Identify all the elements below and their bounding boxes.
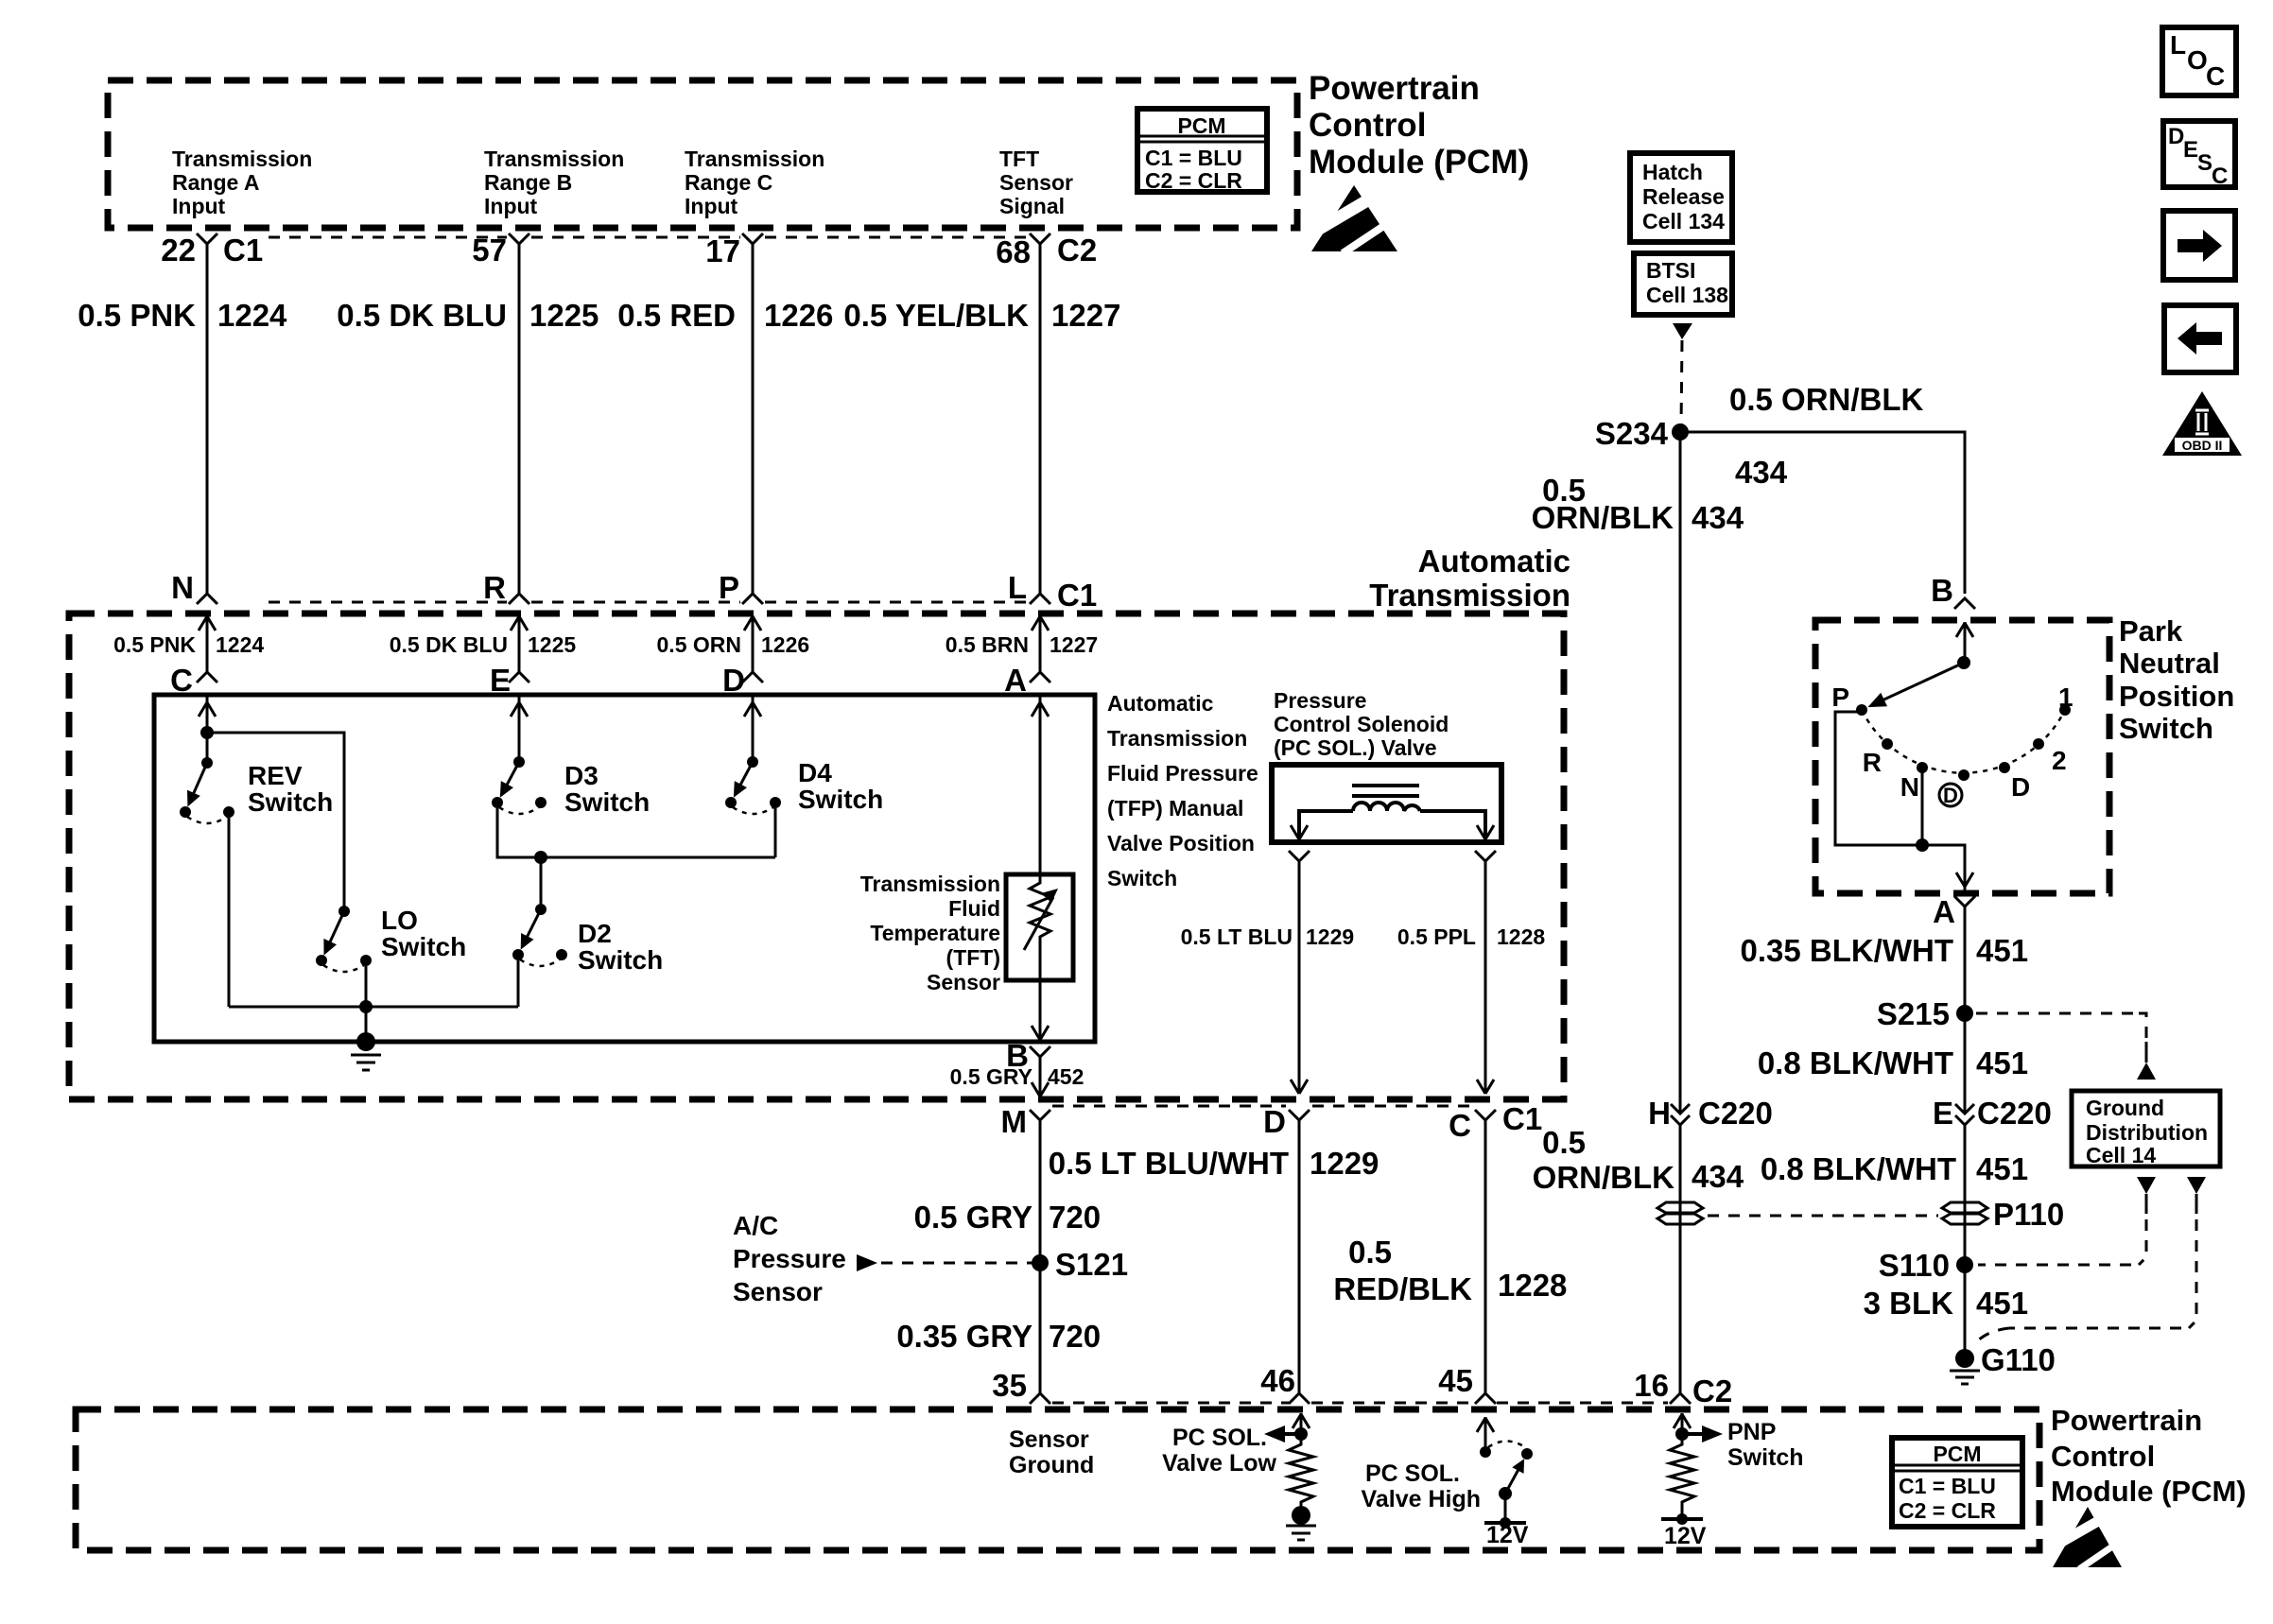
svg-text:Sensor: Sensor — [733, 1277, 823, 1306]
pin 22 C1 — [161, 233, 263, 268]
ESD symbol bottom — [2053, 1507, 2122, 1569]
svg-text:Switch: Switch — [564, 787, 650, 817]
svg-text:C1: C1 — [1502, 1101, 1542, 1136]
svg-text:0.5: 0.5 — [1542, 1125, 1586, 1160]
svg-text:(TFT): (TFT) — [946, 945, 1000, 970]
dashed from S215 to ground distribution — [1976, 1013, 2156, 1080]
svg-text:Switch: Switch — [2119, 712, 2213, 745]
svg-text:Position: Position — [2119, 680, 2234, 713]
label 0.5 DK BLU 1225 (inner) — [390, 632, 577, 657]
wire P contact to output — [1835, 712, 1965, 879]
TFP manual valve position switch box — [154, 695, 1095, 1042]
connector face dashed line C1/C2 (top) — [269, 236, 507, 239]
pin C C1 (solenoid high) — [1449, 1101, 1542, 1143]
pin R — [483, 570, 529, 605]
svg-text:Input: Input — [484, 194, 538, 218]
wire 46 into PCM with arrow — [1293, 1413, 1310, 1434]
svg-text:C1: C1 — [1057, 578, 1097, 613]
svg-text:Cell 14: Cell 14 — [2086, 1143, 2156, 1167]
node S215 — [1877, 996, 1973, 1031]
D3 switch — [492, 756, 547, 814]
svg-text:C2 = CLR: C2 = CLR — [1145, 168, 1242, 193]
wire into E with arrow — [511, 615, 528, 672]
svg-text:Neutral: Neutral — [2119, 647, 2220, 680]
pin A of TFP switch — [1004, 663, 1050, 698]
label 3 BLK 451 — [1864, 1286, 2028, 1321]
svg-text:D: D — [1263, 1104, 1286, 1139]
svg-text:C2 = CLR: C2 = CLR — [1899, 1498, 1996, 1523]
wire D4 right contact down to bus1 — [774, 808, 777, 857]
inline connector H C220 — [1648, 1096, 1773, 1131]
svg-text:S215: S215 — [1877, 996, 1950, 1031]
svg-text:451: 451 — [1976, 933, 2028, 968]
svg-text:451: 451 — [1976, 1151, 2028, 1186]
svg-text:Pressure: Pressure — [733, 1244, 846, 1273]
svg-text:C: C — [170, 663, 193, 698]
wire5 pin D down to pin 46 — [1298, 1120, 1301, 1393]
svg-text:ORN/BLK: ORN/BLK — [1532, 500, 1674, 535]
svg-text:C: C — [2212, 164, 2228, 189]
icon OBD II triangle — [2162, 391, 2242, 456]
svg-text:C1 = BLU: C1 = BLU — [1899, 1474, 1996, 1498]
ground (PC SOL valve low) — [1286, 1506, 1316, 1540]
wire7 S234 down to H C220 — [1679, 432, 1682, 1114]
svg-text:LO: LO — [381, 906, 418, 935]
svg-text:Transmission: Transmission — [860, 872, 1000, 896]
wire A inside box with arrow — [1032, 697, 1049, 874]
node junction on bus1 — [534, 851, 547, 864]
svg-text:A/C: A/C — [733, 1211, 778, 1240]
svg-text:Control: Control — [2051, 1440, 2155, 1473]
Automatic Transmission dashed box — [69, 613, 1564, 1099]
svg-text:B: B — [1931, 573, 1953, 608]
svg-text:C2: C2 — [1692, 1373, 1732, 1408]
pin D of TFP switch — [722, 663, 763, 698]
svg-text:Transmission: Transmission — [1107, 726, 1247, 751]
svg-text:Powertrain: Powertrain — [2051, 1404, 2202, 1437]
resistor (PNP switch pull) — [1670, 1434, 1694, 1516]
label D3 Switch — [564, 761, 650, 817]
wire junction down to D2 pivot — [540, 857, 543, 909]
svg-text:Temperature: Temperature — [870, 921, 1000, 945]
svg-text:D: D — [2011, 772, 2030, 802]
svg-text:1229: 1229 — [1306, 924, 1354, 949]
svg-text:0.8 BLK/WHT: 0.8 BLK/WHT — [1761, 1151, 1956, 1186]
svg-text:Switch: Switch — [798, 785, 883, 814]
wire into C with arrow — [199, 615, 216, 672]
svg-text:Switch: Switch — [1727, 1444, 1804, 1471]
svg-text:C220: C220 — [1698, 1096, 1773, 1131]
label 0.35 BLK/WHT 451 — [1740, 933, 2028, 968]
svg-text:PNP: PNP — [1727, 1419, 1776, 1445]
wire REV right contact down to bus2 — [228, 818, 231, 1007]
svg-text:Range A: Range A — [172, 170, 259, 195]
svg-text:R: R — [1863, 748, 1882, 777]
svg-text:45: 45 — [1438, 1363, 1473, 1398]
pin 68 C2 — [996, 233, 1097, 269]
wire C inside box with arrow — [199, 697, 216, 763]
svg-text:PC SOL.: PC SOL. — [1365, 1460, 1460, 1487]
svg-text:0.5 RED: 0.5 RED — [617, 298, 736, 333]
svg-text:1: 1 — [2058, 682, 2073, 712]
pin 46 — [1260, 1363, 1310, 1404]
svg-text:D4: D4 — [798, 758, 832, 787]
svg-text:D: D — [722, 663, 745, 698]
connector face dashed line (PCM C2 bottom) — [1052, 1402, 1289, 1405]
circled D indicator — [1939, 784, 1962, 807]
label A/C Pressure Sensor — [733, 1211, 846, 1306]
svg-text:E: E — [490, 663, 511, 698]
arrows below ground distribution box — [1978, 1177, 2156, 1265]
icon arrow right — [2163, 211, 2235, 280]
PNP rotary switch — [1856, 656, 2071, 781]
svg-text:434: 434 — [1692, 500, 1744, 535]
svg-text:L: L — [1008, 570, 1027, 605]
title Park Neutral Position Switch — [2119, 614, 2234, 745]
svg-text:Powertrain: Powertrain — [1309, 70, 1480, 107]
svg-text:Transmission: Transmission — [1369, 578, 1570, 613]
svg-text:Cell 134: Cell 134 — [1642, 209, 1725, 233]
pin 17 — [705, 233, 763, 268]
svg-text:1228: 1228 — [1498, 1268, 1567, 1303]
svg-text:1224: 1224 — [217, 298, 287, 333]
svg-text:S234: S234 — [1595, 416, 1669, 451]
label D4 Switch — [798, 758, 883, 814]
svg-text:0.5 PPL: 0.5 PPL — [1397, 924, 1476, 949]
svg-text:PC SOL.: PC SOL. — [1172, 1425, 1267, 1451]
pin D (solenoid low) — [1263, 1104, 1310, 1139]
dashed wire BTSI to S234 — [1681, 340, 1682, 425]
wire S234 to PNP B — [1680, 432, 1965, 594]
dashed link between connectors — [1708, 1215, 1938, 1218]
svg-text:1229: 1229 — [1310, 1146, 1379, 1181]
svg-text:(TFP) Manual: (TFP) Manual — [1107, 796, 1243, 821]
pin B of PNP switch — [1931, 573, 1975, 609]
top PCM dashed box — [108, 80, 1297, 228]
svg-text:A: A — [1004, 663, 1027, 698]
svg-text:434: 434 — [1692, 1159, 1744, 1194]
inline connector P110 — [1942, 1197, 2064, 1232]
label 0.5 ORN/BLK 434 (horizontal run) — [1729, 382, 1924, 490]
svg-text:Sensor: Sensor — [999, 170, 1073, 195]
title Powertrain Control Module (PCM) top — [1309, 70, 1529, 181]
svg-text:M: M — [1001, 1104, 1028, 1139]
svg-text:O: O — [2187, 45, 2208, 75]
svg-text:A: A — [1933, 894, 1955, 929]
label 0.5 RED/BLK 1228 — [1333, 1235, 1567, 1306]
pin B of TFP switch — [1006, 1038, 1050, 1097]
icon LOC — [2162, 27, 2236, 95]
svg-text:Switch: Switch — [248, 787, 333, 817]
bottom PCM dashed box — [76, 1409, 2039, 1550]
svg-text:ORN/BLK: ORN/BLK — [1533, 1160, 1674, 1195]
arrow from BTSI (off-page) — [1673, 323, 1692, 339]
Pressure Control Solenoid labels — [1274, 688, 1449, 760]
node S110 — [1879, 1248, 1973, 1283]
svg-text:0.5 GRY: 0.5 GRY — [950, 1064, 1032, 1089]
PC SOL Valve Low arrow — [1264, 1425, 1308, 1443]
label REV Switch — [248, 761, 333, 817]
label PC SOL. Valve High — [1362, 1460, 1481, 1512]
wire into A with arrow — [1032, 615, 1049, 672]
pin L C1 — [1008, 570, 1097, 613]
svg-text:Switch: Switch — [1107, 866, 1177, 890]
svg-text:S121: S121 — [1055, 1247, 1128, 1282]
svg-text:N: N — [1900, 772, 1919, 802]
wire branch to LO switch — [207, 733, 344, 911]
wire M down to pin 35 — [1039, 1120, 1042, 1393]
node N/output junction — [1916, 838, 1929, 852]
svg-text:C: C — [1449, 1108, 1471, 1143]
title Automatic Transmission — [1369, 544, 1570, 613]
svg-text:H: H — [1648, 1096, 1671, 1131]
svg-text:35: 35 — [992, 1368, 1027, 1403]
svg-text:C1: C1 — [223, 233, 263, 268]
PNP switch dashed box — [1815, 620, 2109, 893]
svg-text:Input: Input — [685, 194, 738, 218]
svg-text:0.5 LT BLU/WHT: 0.5 LT BLU/WHT — [1049, 1146, 1289, 1181]
wire 16 into PCM with arrow / PNP switch pointer — [1674, 1413, 1691, 1434]
label Transmission Fluid Temperature (TFT) Sensor — [860, 872, 1000, 994]
12V source (PNP) — [1661, 1513, 1707, 1549]
arrow down to M — [1032, 1082, 1049, 1097]
svg-text:PCM: PCM — [1933, 1442, 1981, 1466]
PC SOL Valve High switch — [1480, 1442, 1533, 1522]
label TFT Sensor Signal — [999, 147, 1073, 218]
pin 35 — [992, 1368, 1050, 1404]
svg-text:0.5 PNK: 0.5 PNK — [113, 632, 196, 657]
svg-text:0.5 GRY: 0.5 GRY — [914, 1200, 1032, 1235]
label 0.8 BLK/WHT 451 (upper) — [1758, 1045, 2028, 1080]
node S234 — [1595, 416, 1689, 451]
label 0.5 GRY 720 — [914, 1200, 1101, 1235]
svg-text:D3: D3 — [564, 761, 599, 790]
wire B into box with arrow — [1956, 622, 1973, 663]
wire5 from solenoid to pin D — [1291, 861, 1308, 1094]
pin C of TFP switch — [170, 663, 217, 698]
svg-text:Fluid: Fluid — [948, 896, 1000, 921]
svg-text:Pressure: Pressure — [1274, 688, 1366, 713]
svg-text:E: E — [2183, 137, 2198, 163]
svg-text:R: R — [483, 570, 506, 605]
svg-text:Sensor: Sensor — [1009, 1426, 1089, 1453]
wire 0.5 RED 1226 — [617, 244, 833, 594]
label 0.5 PNK 1224 (inner) — [113, 632, 264, 657]
node LO/bus2 junction — [359, 1000, 373, 1013]
svg-text:12V: 12V — [1486, 1522, 1529, 1548]
svg-text:Hatch: Hatch — [1642, 160, 1703, 184]
svg-text:68: 68 — [996, 234, 1031, 269]
wire LO right contact down to bus2 — [365, 966, 368, 1007]
svg-text:Sensor: Sensor — [927, 970, 1000, 994]
svg-text:TFT: TFT — [999, 147, 1039, 171]
wire6 pin C down to pin 45 — [1484, 1120, 1487, 1393]
svg-text:Valve High: Valve High — [1362, 1486, 1481, 1512]
wire7 C220 to P110 row — [1679, 1125, 1682, 1393]
svg-text:451: 451 — [1976, 1045, 2028, 1080]
svg-text:12V: 12V — [1664, 1523, 1707, 1549]
svg-text:(PC SOL.) Valve: (PC SOL.) Valve — [1274, 735, 1437, 760]
PCM legend box (top) — [1137, 109, 1267, 193]
pin N — [171, 570, 217, 605]
icon arrow left — [2164, 305, 2236, 372]
label Transmission Range B Input — [484, 147, 624, 218]
svg-text:22: 22 — [161, 233, 196, 268]
svg-text:Switch: Switch — [381, 932, 466, 961]
svg-text:D: D — [2168, 124, 2184, 149]
svg-text:0.5 PNK: 0.5 PNK — [78, 298, 196, 333]
wire 0.5 PNK 1224 — [78, 244, 287, 594]
svg-text:Fluid Pressure: Fluid Pressure — [1107, 761, 1258, 786]
svg-text:16: 16 — [1634, 1368, 1669, 1403]
svg-text:Valve Low: Valve Low — [1162, 1450, 1276, 1477]
resistor (PC SOL valve low driver) — [1289, 1434, 1313, 1507]
label Sensor Ground — [1009, 1426, 1094, 1478]
wire 0.5 YEL/BLK 1227 — [843, 244, 1120, 594]
svg-text:1225: 1225 — [528, 632, 576, 657]
inline connector E C220 — [1933, 1096, 2052, 1131]
pin E of TFP switch — [490, 663, 529, 698]
label 0.5 PPL 1228 — [1397, 924, 1545, 949]
LO switch — [316, 906, 372, 972]
bus2 wire — [229, 1006, 518, 1009]
label 0.5 GRY 452 — [950, 1064, 1084, 1089]
svg-text:Control: Control — [1309, 107, 1426, 144]
label 0.5 LT BLU 1229 — [1181, 924, 1355, 949]
svg-text:0.35 GRY: 0.35 GRY — [896, 1319, 1032, 1354]
wire E inside box with arrow — [511, 697, 528, 762]
12V source (PC SOL high) — [1484, 1517, 1529, 1548]
BTSI Cell 138 box — [1634, 253, 1732, 315]
solenoid pin forks — [1289, 851, 1310, 861]
svg-text:0.5 ORN/BLK: 0.5 ORN/BLK — [1729, 382, 1924, 417]
svg-text:C: C — [2206, 61, 2225, 91]
svg-text:S110: S110 — [1879, 1248, 1950, 1283]
svg-text:Input: Input — [172, 194, 226, 218]
REV switch — [180, 757, 234, 823]
svg-text:Distribution: Distribution — [2086, 1120, 2208, 1145]
wire E C220 down to P110 — [1964, 1125, 1967, 1358]
svg-text:P: P — [719, 570, 739, 605]
pin 57 — [472, 233, 529, 268]
svg-text:Transmission: Transmission — [172, 147, 312, 171]
svg-text:0.5 YEL/BLK: 0.5 YEL/BLK — [843, 298, 1029, 333]
wire 0.5 DK BLU 1225 — [337, 244, 599, 594]
svg-text:P110: P110 — [1993, 1197, 2064, 1232]
title Powertrain Control Module (PCM) bottom — [2051, 1404, 2247, 1508]
svg-text:Range C: Range C — [685, 170, 772, 195]
pin P — [719, 570, 763, 605]
svg-text:Release: Release — [1642, 184, 1725, 209]
svg-text:3 BLK: 3 BLK — [1864, 1286, 1954, 1321]
svg-text:OBD II: OBD II — [2182, 438, 2223, 453]
label 0.5 LT BLU/WHT 1229 — [1049, 1146, 1379, 1181]
A/C pressure sensor arrow and dashed splice line — [857, 1254, 877, 1271]
label 0.5 ORN/BLK 434 (lower) — [1533, 1125, 1744, 1195]
svg-text:0.8 BLK/WHT: 0.8 BLK/WHT — [1758, 1045, 1953, 1080]
wire6 from solenoid to pin C — [1477, 861, 1494, 1094]
svg-text:REV: REV — [248, 761, 303, 790]
ground (TFP switch common) — [351, 1032, 381, 1070]
svg-text:Transmission: Transmission — [685, 147, 824, 171]
svg-text:2: 2 — [2052, 746, 2067, 775]
svg-text:Automatic: Automatic — [1107, 691, 1214, 716]
svg-text:Valve Position: Valve Position — [1107, 831, 1255, 855]
D4 switch — [725, 756, 781, 814]
svg-text:PCM: PCM — [1177, 113, 1225, 138]
svg-text:17: 17 — [705, 233, 740, 268]
label 0.5 ORN/BLK 434 (upper) — [1532, 473, 1744, 535]
svg-text:E: E — [1933, 1096, 1953, 1131]
inline connector (wire7 pass-through) — [1657, 1202, 1703, 1224]
svg-text:C2: C2 — [1057, 233, 1097, 268]
svg-text:Ground: Ground — [2086, 1096, 2164, 1120]
svg-text:452: 452 — [1048, 1064, 1084, 1089]
svg-text:Control Solenoid: Control Solenoid — [1274, 712, 1449, 736]
label PNP Switch — [1727, 1419, 1804, 1471]
wire 45 into PCM with arrow — [1477, 1417, 1494, 1448]
svg-text:0.5 DK BLU: 0.5 DK BLU — [390, 632, 508, 657]
ESD symbol top — [1311, 185, 1397, 253]
connector face dashed line (transmission C1) — [269, 601, 507, 604]
node: wire1 branch junction — [200, 726, 214, 739]
PCM legend box (bottom) — [1892, 1438, 2022, 1527]
label D2 Switch — [578, 919, 663, 975]
svg-text:BTSI: BTSI — [1646, 258, 1695, 283]
svg-text:720: 720 — [1049, 1319, 1101, 1354]
wire junction to ground — [365, 1007, 368, 1040]
wire D3 left contact to bus1 — [497, 808, 775, 857]
svg-text:1226: 1226 — [761, 632, 809, 657]
svg-text:46: 46 — [1260, 1363, 1295, 1398]
svg-text:D2: D2 — [578, 919, 612, 948]
svg-text:L: L — [2170, 30, 2186, 60]
label Transmission Range A Input — [172, 147, 312, 218]
svg-text:D: D — [1943, 784, 1958, 807]
wire N contact to output — [1921, 768, 1924, 845]
svg-text:1228: 1228 — [1497, 924, 1545, 949]
svg-text:Module (PCM): Module (PCM) — [1309, 144, 1529, 181]
svg-text:N: N — [171, 570, 194, 605]
wire into D with arrow — [744, 615, 761, 672]
svg-text:1226: 1226 — [764, 298, 833, 333]
svg-text:1225: 1225 — [529, 298, 599, 333]
label Transmission Range C Input — [685, 147, 824, 218]
svg-text:S: S — [2197, 150, 2212, 176]
D2 switch — [512, 904, 567, 966]
svg-text:C1 = BLU: C1 = BLU — [1145, 146, 1242, 170]
svg-text:P: P — [1831, 682, 1849, 712]
svg-text:Cell 138: Cell 138 — [1646, 283, 1728, 307]
svg-text:RED/BLK: RED/BLK — [1333, 1271, 1472, 1306]
TFT thermistor symbol — [1024, 874, 1058, 980]
label 0.35 GRY 720 — [896, 1319, 1101, 1354]
svg-text:G110: G110 — [1981, 1342, 2056, 1377]
svg-text:451: 451 — [1976, 1286, 2028, 1321]
svg-text:0.35 BLK/WHT: 0.35 BLK/WHT — [1740, 933, 1953, 968]
svg-text:Signal: Signal — [999, 194, 1065, 218]
svg-text:Module (PCM): Module (PCM) — [2051, 1475, 2247, 1508]
svg-text:C220: C220 — [1977, 1096, 2052, 1131]
svg-text:Park: Park — [2119, 614, 2183, 648]
wire A below TFT to pin B with arrow — [1032, 980, 1049, 1042]
svg-text:Ground: Ground — [1009, 1452, 1094, 1478]
node S121 — [1032, 1247, 1128, 1282]
arrow out of PNP box — [1956, 872, 1973, 887]
label LO Switch — [381, 906, 466, 961]
ground G110 — [1950, 1342, 2056, 1384]
svg-text:Switch: Switch — [578, 945, 663, 975]
